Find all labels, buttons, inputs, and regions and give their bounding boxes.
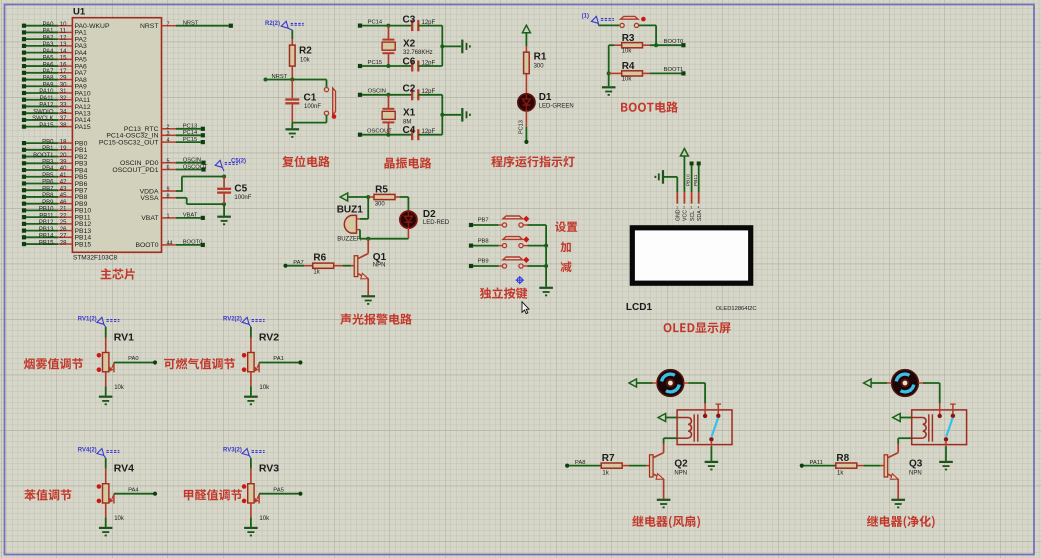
pin PB5 (41) wire — [22, 173, 88, 181]
ground Q2 emitter — [657, 499, 671, 501]
svg-text:NPN: NPN — [909, 471, 922, 477]
pin PB14 (27) wire — [22, 234, 91, 242]
wire Q2 collector — [663, 444, 665, 453]
power symbol motor — [629, 379, 637, 387]
transistor Q3 NPN — [884, 453, 923, 480]
svg-text:6: 6 — [167, 165, 170, 171]
pin PB9 (46) wire — [22, 200, 88, 208]
wire power to motor — [871, 382, 887, 384]
capacitor C1 100nF — [285, 80, 321, 123]
pin PB7 (43) wire — [22, 186, 88, 194]
pin PB8 (45) wire — [22, 193, 88, 201]
pin OSCOUT_PD1 (6) wire — [112, 164, 208, 174]
push button BOOT — [619, 16, 646, 27]
pin PA10 (31) wire — [22, 89, 91, 97]
pin PB10 (21) wire — [22, 207, 91, 215]
svg-text:1k: 1k — [602, 471, 609, 477]
svg-text:41: 41 — [60, 173, 67, 179]
wire right vertical X1 — [441, 95, 443, 135]
wire RV2 wiper to PA1 — [259, 356, 302, 364]
terminal PA8 — [565, 460, 585, 468]
junction collector node alarm — [366, 237, 370, 241]
svg-text:1: 1 — [167, 214, 170, 220]
svg-text:30: 30 — [60, 82, 67, 88]
terminal PC15 — [358, 60, 382, 68]
transistor Q1 NPN — [354, 252, 386, 279]
svg-text:8: 8 — [167, 193, 170, 199]
pin PA1 (11) wire — [22, 29, 87, 37]
OLED pin SCL (3) — [690, 192, 696, 221]
LED D2 LED-RED — [400, 209, 450, 228]
svg-text:38: 38 — [60, 123, 67, 129]
wire coil to collector — [898, 438, 912, 444]
svg-text:OSCIN: OSCIN — [183, 158, 201, 164]
svg-text:2: 2 — [167, 124, 170, 130]
junction X1 bottom — [386, 133, 390, 137]
svg-text:BOOT0: BOOT0 — [183, 240, 203, 246]
svg-text:10k: 10k — [259, 516, 270, 522]
svg-text:9: 9 — [167, 187, 170, 193]
svg-text:PB7: PB7 — [42, 186, 54, 192]
wire PC15 to C6 — [362, 65, 412, 67]
svg-text:42: 42 — [60, 180, 67, 186]
svg-text:BOOT0: BOOT0 — [664, 39, 684, 45]
pin PC14-OSC32_IN (3) wire — [106, 130, 205, 140]
svg-text:PB1: PB1 — [42, 146, 54, 152]
terminal PA11 — [800, 460, 823, 468]
capacitor C5 100nF — [217, 177, 252, 205]
pin PA2 (12) wire — [22, 35, 87, 43]
label 烟雾值调节 — [24, 358, 83, 369]
svg-text:10k: 10k — [114, 516, 125, 522]
svg-text:R2: R2 — [299, 46, 312, 57]
push button PB8 (加) — [502, 237, 528, 248]
resistor R4 10k — [609, 61, 650, 82]
svg-text:10k: 10k — [114, 385, 125, 391]
svg-text:3: 3 — [167, 131, 170, 137]
svg-text:14: 14 — [60, 49, 67, 55]
svg-text:PA15: PA15 — [39, 123, 54, 129]
terminal PA7 — [283, 260, 303, 268]
pin PA15 (38) wire — [22, 123, 91, 131]
svg-text:STM32F103C8: STM32F103C8 — [73, 255, 117, 262]
wire coil power — [900, 417, 912, 419]
svg-text:PA10: PA10 — [39, 89, 54, 95]
svg-text:SWDIO: SWDIO — [33, 109, 54, 115]
svg-text:10: 10 — [60, 22, 67, 28]
origin marker — [516, 276, 524, 284]
pin PA12 (33) wire — [22, 103, 91, 111]
junction X2 right — [440, 44, 444, 48]
power flag C5(2) — [215, 159, 246, 172]
push button PB9 (减) — [502, 257, 528, 268]
svg-text:16: 16 — [60, 62, 67, 68]
wire flag to BOOT button — [598, 24, 619, 26]
pin OSCIN_PD0 (5) wire — [120, 158, 206, 168]
transistor Q2 NPN — [650, 453, 689, 480]
svg-text:PB10: PB10 — [39, 207, 54, 213]
svg-text:(1): (1) — [582, 14, 589, 20]
svg-text:PC15-OSC32_OUT: PC15-OSC32_OUT — [99, 139, 159, 146]
pin PB3 (39) wire — [22, 159, 88, 167]
pin PB4 (40) wire — [22, 166, 88, 174]
svg-text:PB8: PB8 — [42, 193, 54, 199]
svg-text:OSCOUT: OSCOUT — [183, 164, 208, 170]
pin PB12 (25) wire — [22, 220, 91, 228]
svg-text:RV2: RV2 — [259, 332, 279, 344]
label 程序运行指示灯 — [491, 156, 574, 168]
crystal X1 8M — [382, 95, 416, 135]
svg-text:PC14: PC14 — [183, 130, 198, 136]
wire VCC — [683, 156, 685, 192]
svg-text:25: 25 — [60, 220, 67, 226]
terminal SDA wire — [693, 162, 701, 193]
OLED pin VCC (2) — [683, 192, 689, 221]
wire D2 to bottom node — [368, 228, 408, 239]
pin PA3 (13) wire — [22, 42, 87, 50]
pin PC13_RTC (2) wire — [124, 124, 205, 134]
potentiometer RV4 10k — [97, 458, 134, 522]
svg-text:SCL: SCL — [690, 211, 696, 221]
junction X1 top — [386, 93, 390, 97]
resistor R3 10k — [614, 33, 656, 54]
svg-text:R5: R5 — [375, 185, 388, 196]
potentiometer RV3 10k — [242, 458, 279, 522]
svg-text:GND: GND — [676, 209, 682, 221]
svg-text:PB14: PB14 — [39, 234, 54, 240]
pin VBAT (1) wire — [141, 213, 205, 223]
svg-text:PB9: PB9 — [478, 259, 489, 265]
pin VDDA (9) wire — [140, 187, 176, 196]
wire button PB8 to trunk — [523, 245, 546, 247]
motor fan (风扇) — [657, 370, 684, 397]
wire PB8 to button — [473, 245, 502, 247]
svg-text:Q1: Q1 — [373, 252, 387, 263]
svg-text:5: 5 — [167, 158, 170, 164]
buzzer BUZ1 — [337, 204, 364, 242]
pin PA4 (14) wire — [22, 49, 87, 57]
label BOOT电路 — [621, 101, 678, 112]
wire power to R5 — [348, 196, 369, 198]
svg-text:C6: C6 — [403, 57, 416, 68]
svg-text:PB10: PB10 — [686, 174, 692, 186]
svg-text:PA7: PA7 — [43, 69, 55, 75]
svg-text:C3: C3 — [403, 15, 416, 26]
svg-text:12pF: 12pF — [422, 60, 436, 66]
node NRST (reset) — [264, 74, 288, 82]
svg-text:10k: 10k — [300, 58, 311, 64]
wire motor to relay top — [923, 383, 940, 403]
svg-text:PB8: PB8 — [478, 238, 489, 244]
svg-text:RV4: RV4 — [114, 463, 134, 475]
svg-text:300: 300 — [534, 64, 545, 70]
pin PA0 (10) wire — [22, 22, 110, 30]
svg-text:VCC: VCC — [683, 210, 689, 221]
svg-text:SDA: SDA — [697, 210, 703, 221]
svg-text:VBAT: VBAT — [183, 213, 198, 219]
ground RV1 — [99, 386, 113, 404]
svg-text:46: 46 — [60, 200, 67, 206]
junction C5 top node — [222, 175, 226, 179]
wire RV3 wiper to PA5 — [259, 487, 302, 495]
label 复位电路 — [282, 156, 330, 167]
wire BOOT button to R3 node — [639, 25, 657, 45]
wire power to motor — [637, 382, 653, 384]
svg-text:PA0: PA0 — [43, 22, 55, 28]
wire buzzer top to R5 node — [360, 197, 368, 219]
pin SWDIO (34) wire — [22, 109, 91, 117]
svg-text:PC15: PC15 — [368, 60, 383, 66]
svg-text:PA12: PA12 — [39, 103, 54, 109]
motor fan (净化) — [892, 370, 919, 397]
wire button bottom to C1 bottom — [292, 115, 326, 122]
svg-text:PB11: PB11 — [39, 213, 54, 219]
svg-text:27: 27 — [60, 234, 67, 240]
svg-text:RV3: RV3 — [259, 463, 279, 475]
svg-text:RV1(2): RV1(2) — [78, 317, 97, 323]
svg-text:PB4: PB4 — [42, 166, 54, 172]
terminal SCL wire — [686, 162, 694, 193]
svg-text:VBAT: VBAT — [141, 215, 158, 222]
svg-text:PB9: PB9 — [42, 200, 54, 206]
svg-text:PB5: PB5 — [42, 173, 54, 179]
svg-text:26: 26 — [60, 227, 67, 233]
capacitor C6 12pF — [403, 57, 443, 72]
svg-text:PA11: PA11 — [40, 96, 54, 102]
svg-text:PC13: PC13 — [519, 120, 525, 134]
svg-text:PB13: PB13 — [39, 227, 54, 233]
svg-text:11: 11 — [60, 29, 67, 35]
pin PA9 (30) wire — [22, 82, 87, 90]
resistor R6 1k — [287, 253, 354, 276]
svg-text:PB15: PB15 — [75, 241, 92, 248]
wire to BOOT0 terminal — [656, 39, 685, 48]
svg-text:PA4: PA4 — [43, 49, 55, 55]
pin PC15-OSC32_OUT (4) wire — [99, 137, 205, 147]
svg-text:OSCIN: OSCIN — [368, 89, 386, 95]
svg-text:PC13: PC13 — [183, 124, 198, 130]
svg-text:4: 4 — [167, 138, 170, 144]
resistor R7 1k — [569, 453, 650, 477]
relay RL (风扇) — [677, 403, 732, 447]
svg-text:PA4: PA4 — [128, 487, 139, 493]
wire coil to collector — [664, 438, 678, 444]
svg-text:PA5: PA5 — [43, 56, 55, 62]
svg-text:10k: 10k — [259, 385, 270, 391]
ground reset circuit — [286, 123, 300, 137]
terminal PB8 — [469, 238, 489, 247]
label 减 — [561, 261, 572, 272]
microcontroller U1 STM32F103C8 body — [72, 7, 161, 262]
svg-text:45: 45 — [60, 193, 67, 199]
svg-text:R4: R4 — [622, 61, 635, 72]
wire PB7 to button — [473, 224, 502, 226]
svg-text:10k: 10k — [622, 48, 633, 54]
svg-text:20: 20 — [60, 153, 67, 159]
resistor R8 1k — [804, 453, 885, 477]
wire OSCIN to C2 — [362, 94, 412, 96]
capacitor C2 12pF — [403, 84, 443, 101]
svg-text:PA1: PA1 — [273, 356, 284, 362]
resistor R1 300 — [524, 33, 547, 74]
wire OSCOUT to C4 — [362, 134, 412, 136]
resistor R2 10k — [290, 30, 313, 79]
svg-text:12: 12 — [60, 35, 67, 41]
svg-text:PA8: PA8 — [43, 76, 55, 82]
OLED pin GND (1) — [676, 192, 682, 221]
junction R2/C1 — [290, 78, 294, 82]
pin PA11 (32) wire — [22, 96, 90, 104]
power symbol indicator — [522, 25, 530, 33]
svg-text:13: 13 — [60, 42, 67, 48]
ground Q3 emitter — [891, 499, 905, 501]
svg-text:21: 21 — [60, 207, 67, 213]
svg-text:32: 32 — [60, 96, 67, 102]
junction X1 right — [440, 113, 444, 117]
svg-text:R8: R8 — [836, 453, 849, 464]
svg-text:33: 33 — [60, 103, 67, 109]
pin BOOT0 (44) wire — [135, 240, 204, 250]
svg-text:X1: X1 — [403, 108, 416, 119]
junction C5 bottom node — [222, 202, 226, 206]
svg-text:SWCLK: SWCLK — [32, 116, 53, 122]
ground RV4 — [99, 517, 113, 535]
svg-text:19: 19 — [60, 146, 67, 152]
pin PA5 (15) wire — [22, 56, 87, 64]
label OLED显示屏 — [664, 322, 731, 333]
pin PB6 (42) wire — [22, 180, 88, 188]
pin PB13 (26) wire — [22, 227, 91, 235]
pin BOOT1 (20) wire — [22, 153, 88, 161]
svg-text:1k: 1k — [313, 270, 320, 276]
ground relay switch — [939, 447, 953, 470]
ground RV3 — [244, 517, 258, 535]
wire R3 left down to R4 — [609, 45, 614, 86]
wire right vertical X2 — [441, 26, 443, 66]
junction X2 top — [386, 24, 390, 28]
wire motor to relay top — [688, 383, 705, 403]
pin SWCLK (37) wire — [22, 116, 91, 124]
wire NRST node to button — [266, 80, 327, 88]
pin PB1 (19) wire — [22, 146, 88, 154]
svg-text:2: 2 — [683, 206, 685, 210]
svg-text:Q2: Q2 — [674, 459, 688, 470]
pin PB15 (28) wire — [22, 240, 91, 248]
power flag RV3(2) — [223, 448, 265, 459]
svg-text:PB6: PB6 — [42, 180, 54, 186]
svg-text:PA6: PA6 — [43, 62, 55, 68]
wire buttons trunk — [545, 225, 547, 287]
svg-text:OLED12864I2C: OLED12864I2C — [716, 306, 757, 312]
wire RV1 wiper to PA0 — [114, 356, 157, 364]
svg-text:PA3: PA3 — [43, 42, 55, 48]
junction R5/BUZ1 — [366, 195, 370, 199]
svg-text:12pF: 12pF — [422, 129, 436, 135]
svg-text:LCD1: LCD1 — [626, 302, 653, 313]
svg-text:34: 34 — [60, 109, 67, 115]
svg-text:C1: C1 — [304, 93, 317, 104]
label 加 — [560, 242, 570, 253]
capacitor C3 12pF — [403, 15, 443, 32]
power flag (1) BOOT — [582, 14, 614, 26]
svg-text:43: 43 — [60, 186, 67, 192]
terminal PC14 — [358, 19, 383, 27]
svg-text:PB15: PB15 — [39, 240, 54, 246]
pin NRST (7) wire — [140, 21, 233, 31]
pin PB11 (22) wire — [22, 213, 91, 221]
power symbol relay coil — [893, 414, 901, 422]
label 独立按键 — [480, 287, 527, 299]
label 继电器(风扇) — [632, 516, 700, 529]
wire Q2 emitter — [663, 479, 665, 499]
svg-text:300: 300 — [375, 201, 386, 207]
svg-text:PA1: PA1 — [43, 29, 55, 35]
svg-text:RV2(2): RV2(2) — [223, 317, 242, 323]
pin PB0 (18) wire — [22, 139, 88, 147]
svg-text:31: 31 — [60, 89, 67, 95]
svg-text:18: 18 — [60, 139, 67, 145]
svg-text:28: 28 — [60, 240, 67, 246]
svg-text:Q3: Q3 — [909, 459, 923, 470]
svg-text:32.768KHz: 32.768KHz — [403, 50, 433, 56]
svg-text:4: 4 — [698, 206, 700, 210]
junction R4 left — [607, 71, 611, 75]
wire VSSA to C5 bottom — [176, 198, 224, 204]
terminal PB9 — [469, 259, 489, 268]
junction trunk PB8 — [544, 244, 548, 248]
push button reset — [324, 88, 336, 119]
svg-text:R2(2): R2(2) — [265, 21, 280, 27]
crystal X2 32.768KHz — [382, 26, 433, 66]
power symbol alarm — [340, 193, 348, 201]
svg-text:D2: D2 — [423, 209, 436, 220]
relay RL (净化) — [912, 403, 967, 447]
wire Q3 collector — [897, 444, 899, 453]
wire R5 to D2 — [400, 197, 409, 211]
svg-text:40: 40 — [60, 166, 67, 172]
ground OLED GND — [655, 170, 677, 192]
junction BOOT0 node — [654, 43, 658, 47]
power symbol relay coil — [658, 414, 666, 422]
LED D1 LED-GREEN — [518, 74, 574, 111]
ground relay switch — [705, 447, 719, 470]
svg-text:15: 15 — [60, 56, 67, 62]
push button PB7 (设置) — [502, 216, 528, 227]
svg-text:12pF: 12pF — [422, 20, 436, 26]
svg-text:R6: R6 — [313, 253, 326, 264]
svg-text:PA0: PA0 — [128, 356, 139, 362]
svg-text:3: 3 — [690, 206, 692, 210]
svg-text:BOOT0: BOOT0 — [135, 242, 158, 249]
label 声光报警电路 — [340, 313, 412, 324]
terminal PB7 — [469, 218, 489, 227]
label 继电器(净化) — [867, 516, 935, 529]
OLED pin SDA (4) — [697, 192, 703, 221]
svg-text:U1: U1 — [73, 7, 86, 18]
capacitor C4 12pF — [403, 125, 443, 140]
svg-text:RV1: RV1 — [114, 332, 134, 344]
resistor R5 300 — [368, 185, 399, 208]
wire to BOOT1 terminal — [650, 67, 686, 76]
svg-text:NRST: NRST — [140, 23, 159, 30]
pin VSSA (8) wire — [140, 193, 176, 202]
potentiometer RV1 10k — [97, 327, 134, 391]
svg-text:100nF: 100nF — [304, 104, 321, 110]
wire button PB7 to trunk — [523, 224, 546, 226]
svg-text:1k: 1k — [837, 471, 844, 477]
svg-text:7: 7 — [167, 21, 170, 27]
svg-text:PB7: PB7 — [478, 218, 489, 224]
